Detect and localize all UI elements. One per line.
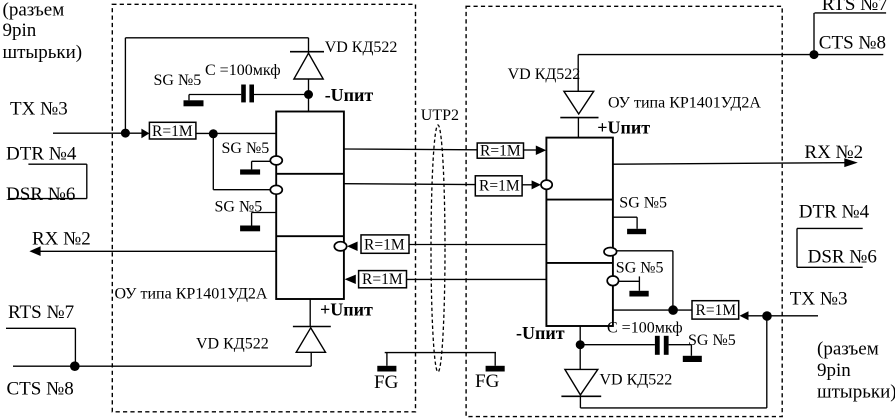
wire TX left input (53, 132, 142, 134)
ground SG5 right bar (629, 291, 648, 297)
wire RTS right vertical (813, 13, 815, 55)
wire node down to inverting branch (212, 134, 214, 190)
wire C2 to SG6 (669, 344, 692, 346)
ground FG left wire (385, 352, 496, 354)
op-amp U2 (right, КР1401УД2А) (546, 138, 613, 326)
svg-text:RTS №7: RTS №7 (8, 302, 74, 323)
arrow into U2 s1 bubble (532, 180, 541, 189)
svg-text:(разъем: (разъем (817, 339, 879, 360)
diode VD4 cathode bar (561, 395, 601, 397)
svg-text:9pin: 9pin (3, 20, 37, 41)
wire U1 s2 direct input to SG (252, 212, 277, 214)
wire bubble to TX net vertical (617, 250, 673, 252)
ground SG3 left bar (240, 226, 260, 232)
ground FG right stem (494, 353, 496, 366)
ground SG3 left stem (251, 213, 253, 226)
arrow into R4 (740, 311, 749, 320)
wire to bubble U1 section2 (213, 189, 270, 191)
svg-text:CTS №8: CTS №8 (7, 378, 74, 399)
input bubble U1 s3 (right edge) (334, 242, 346, 251)
op-amp U1 (left, КР1401УД2А) (276, 112, 344, 300)
node after R1 (209, 129, 218, 138)
svg-text:SG №5: SG №5 (688, 332, 736, 349)
svg-text:штырьки): штырьки) (3, 42, 83, 63)
wire capacitor to SG1 (189, 94, 241, 96)
svg-text:DSR №6: DSR №6 (6, 184, 75, 205)
ground SG2 left stem (251, 161, 253, 169)
ground FG right bar (486, 366, 505, 372)
wire TX right input (749, 315, 819, 317)
svg-text:RX №2: RX №2 (32, 228, 91, 249)
svg-text:ОУ типа КР1401УД2А: ОУ типа КР1401УД2А (608, 95, 761, 112)
ground SG1 left stem (188, 95, 190, 101)
svg-text:(разъем: (разъем (3, 0, 65, 21)
right converter dashed box (466, 6, 782, 416)
ground SG1 left bar (184, 100, 204, 106)
svg-text:VD КД522: VD КД522 (600, 372, 673, 389)
input bubble U1 s1 (270, 156, 282, 165)
svg-text:DSR №6: DSR №6 (808, 247, 877, 268)
resistor R1 R=1M (left TX) (149, 122, 196, 139)
ground FG left stem (386, 353, 388, 366)
ground SG6 right stem (690, 345, 692, 356)
resistor R2 R=1M (right rx top) (477, 143, 523, 158)
svg-text:VD КД522: VD КД522 (508, 66, 581, 83)
wire RTS right horizontal (815, 12, 887, 14)
svg-text:RX №2: RX №2 (804, 142, 863, 163)
arrow into U2 s1 (536, 146, 546, 156)
svg-text:+Uпит: +Uпит (320, 299, 373, 319)
svg-text:-Uпит: -Uпит (325, 85, 374, 105)
wire VD2 down (310, 352, 312, 366)
UTP2 cable ellipse (431, 125, 445, 372)
ground FG left bar (377, 366, 396, 372)
ground SG6 right bar (683, 356, 702, 362)
wire feedback left vertical (124, 38, 126, 133)
bracket DTR/DSR left (28, 163, 86, 165)
svg-text:R=1M: R=1M (479, 177, 520, 194)
wire RX right output (613, 163, 845, 165)
wire diode drop (308, 38, 310, 54)
input bubble U1 s2 (270, 185, 282, 194)
wire R1 to U1 (196, 132, 276, 134)
wire bubble s1 to SG (252, 160, 271, 162)
arrow into R1 (141, 129, 149, 139)
resistor R5 R=1M (left rx top) (361, 235, 409, 253)
capacitor C1 plates (241, 85, 246, 103)
input bubble U2 s1 (541, 180, 552, 189)
svg-text:SG №5: SG №5 (619, 195, 667, 212)
svg-text:TX №3: TX №3 (790, 289, 848, 310)
resistor R6 R=1M (left rx bottom) (359, 271, 407, 288)
svg-text:DTR №4: DTR №4 (799, 202, 870, 223)
wire bottom right horizontal (580, 407, 766, 409)
svg-text:VD КД522: VD КД522 (325, 39, 398, 56)
svg-text:C =100мкф: C =100мкф (205, 62, 281, 79)
node TX net right (668, 305, 678, 315)
diode VD1 (left top КД522) cathode bar (290, 51, 324, 53)
wire R2 to U2 (524, 149, 537, 151)
wire CTS right horizontal (578, 54, 883, 56)
node -Upit right (576, 340, 585, 349)
svg-text:TX №3: TX №3 (10, 98, 68, 119)
ground SG4 right bar (627, 229, 646, 234)
wire R6 to U2 left edge (407, 278, 547, 280)
wire U2 s2 direct input to SG (613, 216, 637, 218)
svg-text:9pin: 9pin (817, 360, 851, 381)
svg-text:R=1M: R=1M (152, 123, 193, 140)
svg-text:R=1M: R=1M (480, 142, 521, 159)
wire U2 bottom to -Upit node (579, 326, 581, 369)
svg-text:FG: FG (475, 371, 500, 392)
node TX-R junction (762, 311, 772, 321)
diode VD1 triangle (294, 53, 323, 79)
wire RTS left horizontal (6, 327, 75, 329)
svg-text:-Uпит: -Uпит (516, 323, 565, 343)
wire U2 s3 input from R4 (613, 309, 692, 311)
svg-text:RTS №7: RTS №7 (822, 0, 888, 15)
node TX-L junction (121, 129, 130, 138)
resistor R3 R=1M (right rx bottom) (475, 176, 522, 196)
wire -Upit to capacitor C2 (580, 344, 655, 346)
node CTS right (810, 50, 819, 59)
wire bubble s3 to SG5 (619, 280, 640, 282)
resistor R4 R=1M (right TX) (692, 301, 739, 319)
wire VD1 to -Upit node (308, 79, 310, 112)
node -Upit left (304, 90, 313, 99)
diode VD3 (right top КД522) wire from CTS (577, 55, 579, 92)
wire U1 out2 to R3 (344, 183, 475, 186)
ground SG4 right stem (636, 217, 638, 229)
svg-text:SG №5: SG №5 (154, 72, 202, 89)
wire VD3 to U2 top (577, 118, 579, 138)
svg-text:FG: FG (374, 372, 399, 393)
ground SG5 right stem (638, 276, 640, 290)
wire CTS left horizontal (13, 365, 311, 367)
ground SG2 left bar (240, 169, 260, 174)
wire U1 out1 to R2 (344, 148, 477, 151)
diode VD2 cathode bar (293, 326, 331, 328)
arrow into U1 s3 lower (345, 275, 356, 284)
left converter dashed box (112, 4, 415, 412)
svg-text:ОУ типа КР1401УД2А: ОУ типа КР1401УД2А (115, 286, 268, 303)
node CTS left (70, 361, 80, 371)
svg-text:R=1M: R=1M (364, 236, 405, 253)
svg-text:SG №5: SG №5 (222, 140, 270, 157)
svg-text:DTR №4: DTR №4 (6, 144, 77, 165)
capacitor C2 plates (655, 336, 660, 355)
svg-text:SG №5: SG №5 (215, 199, 263, 216)
svg-text:штырьки): штырьки) (817, 382, 895, 403)
svg-text:UTP2: UTP2 (421, 107, 459, 124)
arrow RX left (29, 246, 40, 256)
svg-text:+Uпит: +Uпит (597, 118, 650, 138)
bracket DTR/DSR right (797, 227, 863, 229)
wire RTS left vertical (74, 328, 76, 366)
diode VD4 (right bottom КД522) triangle (565, 369, 598, 395)
diode VD3 triangle (564, 91, 594, 114)
arrow into U1 s3 bubble (347, 242, 358, 252)
svg-text:R=1M: R=1M (362, 271, 403, 288)
svg-text:C =100мкф: C =100мкф (607, 319, 683, 336)
wire TX-R down (766, 316, 768, 408)
wire RX left output (40, 250, 276, 252)
svg-text:CTS №8: CTS №8 (819, 33, 886, 54)
svg-text:R=1M: R=1M (696, 302, 737, 319)
svg-text:SG №5: SG №5 (616, 260, 664, 277)
wire R3 to bubble (522, 184, 532, 186)
wire VD4 to bottom (579, 396, 581, 408)
arrow RX right (844, 158, 858, 167)
svg-text:VD КД522: VD КД522 (196, 336, 269, 353)
wire -Upit to capacitor (254, 94, 309, 96)
diode VD3 cathode bar (560, 117, 598, 119)
input bubble U2 s3 (right edge) (607, 276, 618, 286)
input bubble U2 s2 (right edge) (604, 248, 617, 256)
diode VD2 (left bottom КД522) wire from U1 (309, 299, 311, 327)
wire R5 to U2 left edge (409, 244, 546, 246)
diode VD2 triangle (296, 328, 325, 353)
wire feedback left horizontal (125, 37, 308, 39)
